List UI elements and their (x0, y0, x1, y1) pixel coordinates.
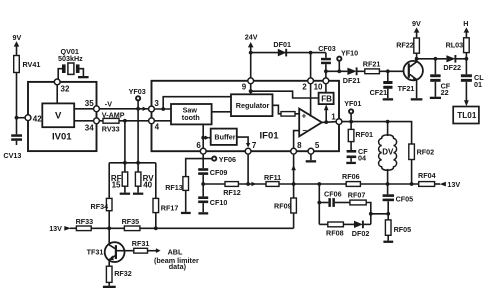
node junction RF01 tap (349, 120, 353, 124)
pin 34 (85, 118, 100, 132)
svg-text:RF04: RF04 (418, 171, 436, 180)
terminal YF01 (344, 99, 361, 113)
pin 2 (302, 78, 313, 92)
wire 24V line down to pin 2 (310, 53, 312, 78)
wire pin9 net to FB box (251, 91, 319, 98)
svg-text:6: 6 (196, 141, 201, 150)
svg-text:RF01: RF01 (355, 130, 373, 139)
wire RV40 to ground (137, 186, 139, 192)
pin 5 (308, 141, 320, 154)
wire CF06 to RF07 (335, 202, 350, 204)
arrow on rail right of pin7 (252, 182, 256, 186)
ground crystal (78, 76, 89, 78)
resistor RL03 (446, 38, 470, 53)
svg-text:CV13: CV13 (3, 151, 21, 160)
svg-text:DF02: DF02 (352, 229, 370, 238)
wire resistor to opamp plus input (295, 113, 299, 115)
resistor RF33 (76, 217, 94, 231)
resistor RF04 (418, 171, 436, 187)
ground pin 5 (306, 160, 316, 162)
svg-text:RL03: RL03 (446, 40, 464, 49)
node junction RF15 tap on V-AMP (123, 119, 127, 123)
terminal YF06 (203, 155, 236, 164)
svg-text:TL01: TL01 (457, 111, 477, 120)
node junction DV rail (386, 182, 390, 186)
ground CF22 (430, 97, 441, 99)
wire RF35 to RF09 foot (140, 227, 294, 229)
svg-text:32: 32 (61, 85, 70, 94)
svg-text:24V: 24V (245, 33, 258, 42)
wire RF32 to ground (108, 282, 110, 285)
ground CF04 (346, 162, 356, 164)
diode DF22 (443, 55, 461, 72)
wire CF22 drop (434, 59, 436, 75)
label ABL beam limiter data (154, 248, 199, 272)
svg-text:YF10: YF10 (341, 49, 358, 58)
node internal junction pin3 (161, 107, 165, 111)
ground TF21 (411, 98, 423, 100)
ground RF32 (103, 286, 116, 288)
svg-text:5: 5 (315, 141, 320, 150)
wire YF03 down to -V line (137, 100, 139, 108)
ground CF21 (383, 98, 393, 100)
diode DF21 (343, 67, 361, 84)
node junction YF10 (337, 69, 341, 73)
wire RF17 vertical (155, 163, 157, 229)
capacitor CF03 (318, 44, 336, 64)
capacitor CF21 (370, 81, 393, 97)
wire RF05 to ground (387, 235, 389, 240)
svg-text:503kHz: 503kHz (58, 54, 83, 63)
wire RF15 branch down from V-AMP (124, 121, 126, 172)
svg-text:CF03: CF03 (318, 44, 336, 53)
wire RC right to CF05 node (371, 213, 389, 215)
diode DF01 (273, 40, 291, 57)
block buffer (211, 129, 237, 145)
resistor RF11 (264, 173, 281, 186)
svg-text:4: 4 (155, 123, 160, 132)
node 9V supply right (412, 19, 421, 33)
svg-text:15: 15 (112, 181, 121, 190)
node junction A collector RF34 (107, 226, 111, 230)
block V inside IV01 (42, 103, 74, 127)
pin 9 (242, 78, 254, 92)
wire pin 10 to FB top (325, 84, 327, 93)
svg-text:42: 42 (33, 114, 42, 123)
svg-text:04: 04 (358, 153, 366, 162)
node junction buffer tap (201, 136, 205, 140)
wire TF31 emitter to RF32 (108, 260, 110, 266)
ground CF10 (198, 212, 208, 214)
svg-text:YF01: YF01 (344, 99, 361, 108)
resistor RF31 (132, 239, 150, 253)
arrow into pin 7 (246, 143, 250, 148)
wire regulator to opamp resistor (273, 105, 282, 114)
pin 35 (85, 99, 100, 112)
node junction RL03 (465, 57, 469, 61)
resistor RF05 (385, 220, 411, 235)
resistor RF08 (326, 222, 344, 238)
wire RF15 to ground (124, 186, 126, 192)
wire CF22 to ground (434, 82, 436, 97)
node 13V supply left (49, 224, 71, 233)
wire 9V to RF22 (416, 32, 418, 38)
svg-text:RF22: RF22 (396, 40, 414, 49)
capacitor CF22 (430, 74, 451, 97)
transistor TF31 (87, 242, 125, 262)
wire pin 2 power into opamp (310, 84, 312, 117)
svg-text:35: 35 (85, 99, 94, 108)
wire RF34 vertical (108, 163, 110, 229)
svg-text:RF02: RF02 (417, 147, 435, 156)
svg-text:RF31: RF31 (132, 239, 150, 248)
wire RF13 branch (186, 159, 204, 177)
svg-text:RF34: RF34 (91, 202, 109, 211)
resistor RF15 (111, 172, 128, 190)
svg-text:9: 9 (242, 83, 247, 92)
wire DV bottom stem (387, 169, 389, 184)
wire RF02 to rail (411, 160, 413, 185)
wire pin 5 to ground (310, 154, 312, 160)
svg-text:RF09: RF09 (274, 201, 292, 210)
svg-text:DF01: DF01 (273, 40, 291, 49)
IC IF01 outer box (152, 81, 340, 151)
diode DF02 (352, 221, 370, 238)
wire opamp output to pin 1 (322, 121, 336, 124)
svg-text:CF06: CF06 (324, 190, 342, 199)
wire internal feedback to regulator (163, 97, 231, 109)
svg-text:RF21: RF21 (363, 60, 381, 69)
node 13V right (440, 180, 461, 189)
svg-text:TF21: TF21 (398, 84, 415, 93)
IC IV01 outer box (28, 82, 97, 151)
capacitor CF04 (347, 147, 369, 163)
wire CF21 drop (387, 71, 389, 81)
wire TF31 collector drop (108, 228, 110, 245)
wire junction to RF01 (350, 122, 352, 130)
wire arrow to buffer (209, 137, 211, 139)
node junction pin 2 feed (309, 51, 313, 55)
svg-text:2: 2 (302, 83, 307, 92)
wire 13V to RF33 (70, 227, 76, 229)
svg-text:34: 34 (85, 123, 94, 132)
resistor RF35 (122, 217, 140, 231)
resistor RV33 (102, 118, 120, 133)
wire 24V down to pin 9 (250, 47, 252, 78)
wire pin 9 into regulator (250, 84, 252, 91)
node junction 24V branch (249, 51, 253, 55)
wire saw tooth bottom to pin 6 (202, 124, 204, 148)
pin 6 (196, 141, 206, 154)
wire junction to pin 42 (17, 117, 26, 119)
resistor RF02 (409, 144, 434, 160)
resistor internal (unlabelled) (281, 112, 295, 117)
svg-text:7: 7 (252, 141, 257, 150)
wire RF31 to ABL arrow (148, 250, 157, 252)
svg-text:DV: DV (382, 148, 394, 157)
node junction RF02 rail (410, 182, 414, 186)
wire crystal right lead (80, 69, 84, 76)
wire pin 1 output line (342, 122, 412, 144)
svg-text:RV33: RV33 (102, 124, 120, 133)
wire pin 7 vertical (247, 154, 249, 184)
pin 7 (245, 141, 257, 154)
node rail linking RF34 RF15 RV40 RF17 (109, 162, 156, 164)
svg-text:CF09: CF09 (210, 168, 228, 177)
node ABL output arrow (156, 248, 161, 253)
svg-text:01: 01 (474, 80, 482, 89)
wire pin 6 net vertical (202, 154, 204, 168)
node junction pin8 rail (292, 182, 296, 186)
svg-text:tooth: tooth (182, 113, 200, 122)
wire H to RL03 (465, 32, 467, 38)
node junction DV top (386, 120, 390, 124)
pin 10 (314, 78, 329, 92)
wire mid rail (203, 183, 419, 185)
wire CF04 to ground (350, 158, 352, 162)
wire buffer to pin 7 (237, 137, 248, 144)
wire RF22 to collector junction (416, 53, 418, 61)
node 9V supply left (13, 33, 22, 47)
resistor RF32 (106, 266, 131, 282)
svg-text:9V: 9V (13, 33, 22, 42)
pin 42 (25, 114, 42, 123)
svg-text:TF31: TF31 (87, 247, 104, 256)
node -V line (99, 99, 148, 109)
wire RC bottom branch (319, 223, 328, 225)
svg-text:22: 22 (441, 88, 449, 97)
node junction B RF17 (154, 226, 158, 230)
pin 1 (331, 112, 342, 124)
wire RF01 to CF04 (350, 142, 352, 150)
arrow on -V line toward pin 3 (143, 107, 147, 111)
resistor RV40 (135, 172, 154, 190)
wire RF33 to RF35 (91, 227, 124, 229)
wire YF10 down (338, 61, 340, 72)
node H supply (463, 19, 469, 33)
svg-text:CF05: CF05 (396, 194, 414, 203)
resistor RF06 (342, 172, 360, 186)
wire 13V rail up to RF09 (293, 213, 295, 228)
wire TF31 base to RF31 (117, 250, 134, 252)
svg-text:RF05: RF05 (394, 225, 412, 234)
node junction collector (415, 57, 419, 61)
wire RL03 to junction (465, 53, 467, 59)
wire TF21 emitter to ground (416, 80, 418, 99)
node junction YF03 on -V (136, 107, 140, 111)
ground RV40 (133, 193, 143, 195)
wire RC top branch left (319, 202, 328, 204)
svg-text:Regulator: Regulator (236, 101, 270, 110)
wire DF22 to RL03 junction (455, 58, 466, 60)
resistor RF17 (153, 198, 178, 212)
svg-text:-V: -V (105, 99, 112, 108)
wire crystal left lead to pin 32 (58, 69, 62, 79)
wire RV41 to CV13 (16, 73, 18, 135)
block saw tooth (171, 104, 212, 124)
wire pin 8 vertical with arrow (293, 154, 295, 184)
resistor RF22 (396, 38, 419, 53)
node junction at pin42 branch (15, 116, 19, 120)
resistor RF13 (165, 177, 188, 192)
node junction output FB tap (324, 120, 328, 124)
svg-text:IV01: IV01 (52, 131, 72, 142)
svg-text:RF17: RF17 (161, 204, 179, 213)
node junction pin9 branch (249, 89, 253, 93)
node junction CF21 tap (386, 69, 390, 73)
wire CF10 to ground (202, 203, 204, 212)
svg-text:RF12: RF12 (223, 188, 241, 197)
svg-text:DF21: DF21 (343, 76, 361, 85)
wire pin 4 to saw tooth (154, 120, 171, 122)
svg-text:RF08: RF08 (326, 229, 344, 238)
pin 8 (291, 141, 302, 154)
svg-text:RF11: RF11 (264, 173, 281, 182)
wire CF03 drop (325, 53, 327, 58)
svg-text:3: 3 (154, 99, 159, 108)
wire junction down to CL01 (465, 59, 467, 75)
wire CF05 to RF05 (387, 201, 389, 220)
wire RV40 branch down from -V (137, 109, 139, 172)
svg-text:IF01: IF01 (260, 131, 280, 142)
wire RF13 to ground (185, 190, 187, 211)
svg-text:YF06: YF06 (219, 155, 236, 164)
svg-text:Buffer: Buffer (214, 133, 235, 142)
delay line DV (379, 135, 397, 170)
svg-text:RF06: RF06 (342, 172, 360, 181)
svg-text:H: H (463, 19, 468, 28)
wire V block to pin34 (74, 120, 94, 122)
svg-text:data): data) (169, 262, 187, 271)
node junction CF09 rail (201, 182, 205, 186)
transistor TF21 (398, 61, 423, 93)
op-amp U1 triangle (299, 109, 322, 137)
resistor RF21 (363, 60, 381, 74)
wire V-AMP line pin34 to RV33 (99, 120, 103, 122)
ground RF15 (120, 193, 130, 195)
svg-text:CF10: CF10 (210, 198, 228, 207)
svg-text:40: 40 (143, 181, 152, 190)
resistor RF07 (348, 190, 366, 205)
wire CF21 to ground (387, 89, 389, 98)
capacitor CF10 (198, 196, 227, 206)
wire RC network left vertical (318, 184, 320, 224)
node junction RC top branch (317, 201, 321, 205)
svg-text:1: 1 (331, 112, 336, 121)
svg-text:DF22: DF22 (443, 63, 461, 72)
wire RF07 to right node (366, 203, 371, 225)
node junction RC right (369, 212, 373, 216)
pin 32 (54, 79, 70, 94)
svg-text:RF07: RF07 (348, 190, 366, 199)
svg-text:RF13: RF13 (165, 183, 183, 192)
wire DV top stem (387, 122, 389, 136)
ground RF13 (181, 212, 191, 214)
svg-text:RF35: RF35 (122, 217, 140, 226)
arrow into buffer (205, 136, 209, 140)
wire V block to pin35 (74, 108, 94, 110)
wire CF09 to rail (202, 175, 204, 197)
capacitor CV13 (3, 134, 22, 160)
svg-text:RF32: RF32 (114, 269, 132, 278)
svg-text:13V: 13V (447, 180, 460, 189)
resistor RF12 (223, 182, 241, 198)
svg-text:FB: FB (321, 95, 332, 104)
capacitor CF09 (198, 168, 227, 177)
svg-text:V: V (55, 111, 62, 122)
wire CF03 to pin10 junction (325, 64, 327, 78)
resistor RV41 (14, 56, 41, 73)
capacitor CF06 (324, 190, 342, 207)
pin 4 (149, 118, 160, 132)
svg-text:RF33: RF33 (76, 217, 94, 226)
svg-text:10: 10 (314, 83, 323, 92)
node junction under CF03 (324, 69, 328, 73)
arrow into regulator (249, 90, 253, 94)
terminal YF03 (129, 87, 146, 101)
node 24V supply (245, 33, 258, 48)
svg-text:CF21: CF21 (370, 88, 388, 97)
wire 24V branch to CF03 (251, 52, 326, 54)
block TL01 (453, 107, 479, 124)
ground RF05 (383, 241, 393, 243)
wire RV33 to pin 4 (119, 120, 149, 122)
wire CF05 drop from rail (387, 184, 389, 194)
node junction RC network rail (317, 182, 321, 186)
crystal QV01 503kHz (58, 47, 83, 74)
wire saw tooth to regulator (212, 111, 231, 113)
svg-text:8: 8 (297, 141, 302, 150)
wire FB feedback arrow up (325, 109, 327, 122)
svg-text:+: + (302, 111, 307, 120)
wire collector junction right (417, 58, 447, 60)
wire DF21 to RF21 (357, 70, 365, 72)
wire RF09 to 13V rail (293, 184, 295, 198)
wire DF02 to right node (363, 223, 371, 225)
svg-text:YF03: YF03 (129, 87, 146, 96)
wire RF04 to 13V arrow (435, 183, 440, 185)
wire 9V to RV41 (16, 46, 18, 56)
wire CL01 to TL01 with arrow (465, 82, 467, 102)
wire RF21 to TF21 base (379, 70, 403, 72)
resistor RF09 (274, 198, 296, 213)
block regulator (231, 94, 273, 116)
resistor RF34 (91, 198, 113, 211)
svg-text:−: − (302, 126, 307, 135)
node junction pin7 rail (246, 182, 250, 186)
wire YF01 down (350, 114, 352, 122)
node junction CF22 tap (434, 57, 438, 61)
resistor RF01 (348, 129, 373, 141)
terminal YF10 (337, 49, 358, 61)
svg-text:RV41: RV41 (23, 60, 41, 69)
wire junction to DF21 (326, 70, 348, 72)
wire opamp minus input to pin 8 (294, 131, 300, 148)
block FB (319, 93, 334, 104)
wire pin 3 to internal node (154, 108, 171, 110)
wire pin32 to V block (56, 84, 58, 103)
node junction CF05 RF05 (386, 212, 390, 216)
svg-text:13V: 13V (49, 224, 62, 233)
svg-text:9V: 9V (412, 19, 421, 28)
capacitor CF05 (383, 194, 414, 203)
capacitor CL01 (461, 73, 484, 89)
pin 3 (149, 99, 160, 112)
